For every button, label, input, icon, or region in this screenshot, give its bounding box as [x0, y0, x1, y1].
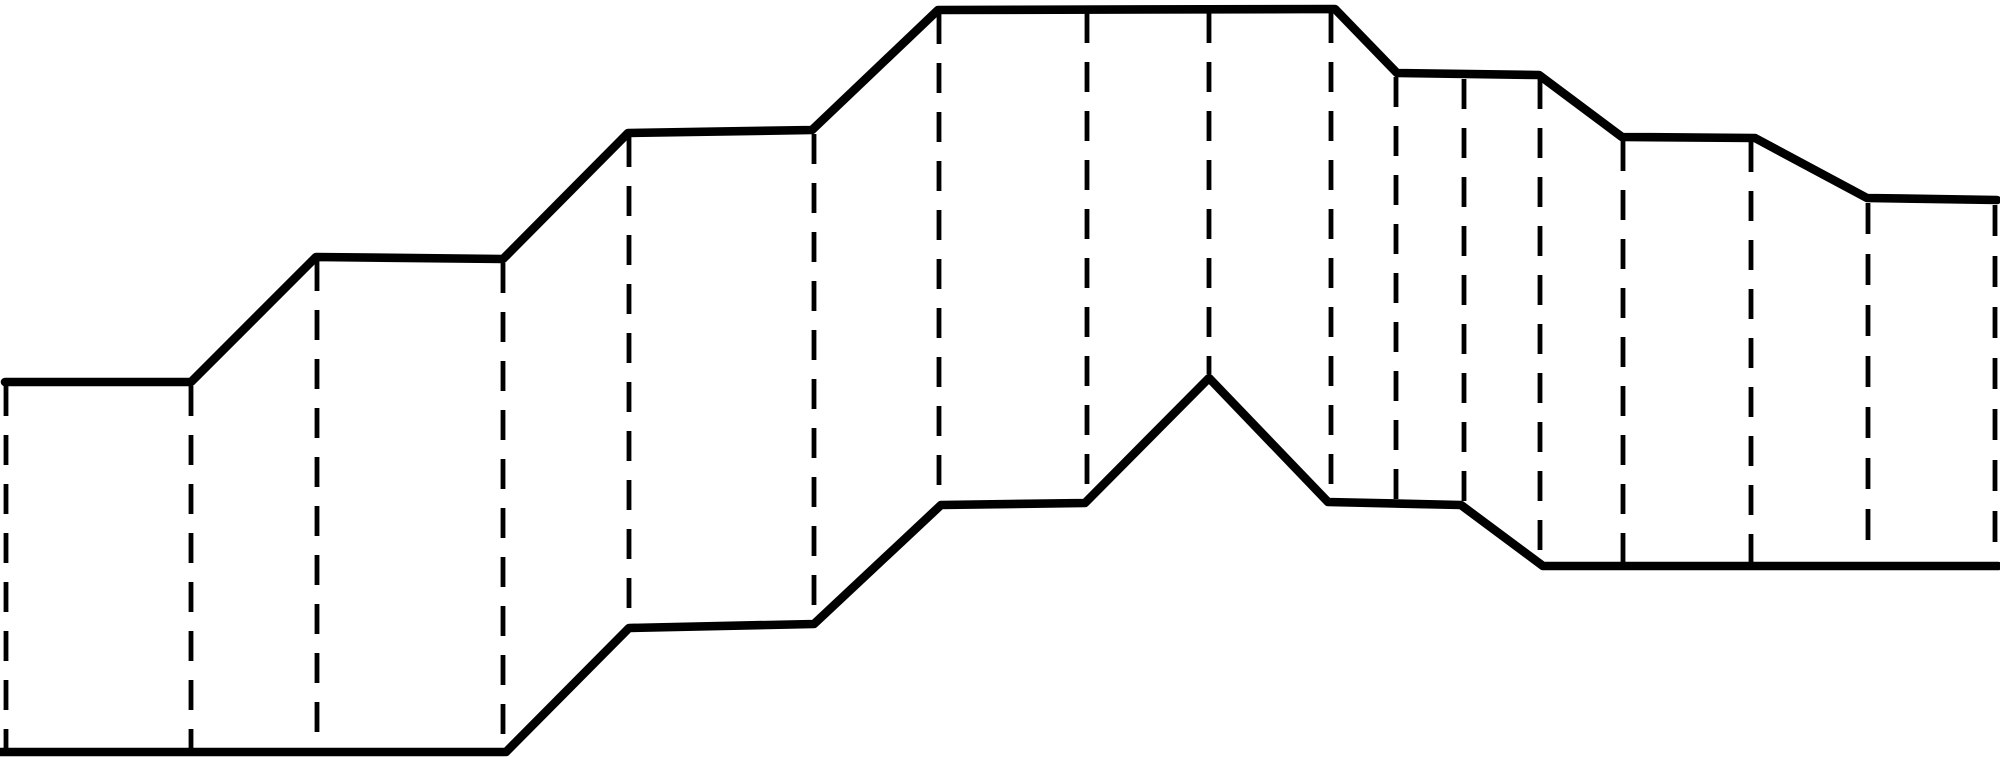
fold line 5 [627, 137, 632, 625]
fold line 4 [501, 263, 506, 750]
fold line 14 [1621, 141, 1626, 563]
fold line 12 [1462, 79, 1467, 502]
fold line 9 [1207, 13, 1212, 374]
fold line 6 [812, 134, 817, 621]
fold line 3 [315, 261, 320, 750]
fold line 7 [937, 14, 942, 502]
fold line 13 [1538, 79, 1543, 563]
fold line 11 [1394, 77, 1399, 500]
fold line 10 [1329, 13, 1334, 499]
bottom profile polyline [0, 378, 1998, 752]
fold line 16 [1866, 203, 1871, 557]
fold line 1 [4, 386, 9, 752]
fold line 8 [1085, 13, 1090, 500]
fold line 17 [1993, 205, 1998, 559]
fold line 15 [1749, 142, 1754, 563]
top profile polyline [5, 9, 1997, 382]
fold line 2 [189, 386, 194, 750]
